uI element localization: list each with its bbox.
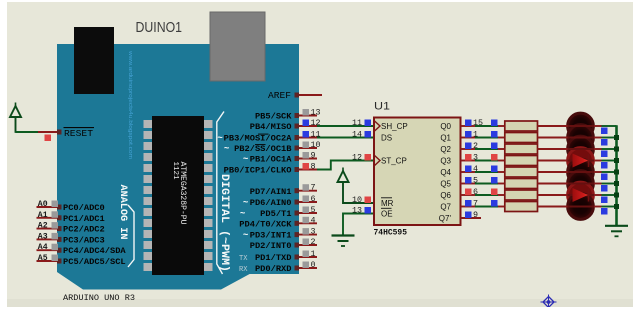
svg-text:1: 1	[311, 249, 316, 259]
svg-text:PB4/MISO: PB4/MISO	[250, 122, 292, 132]
LED D5	[568, 159, 594, 185]
svg-text:PB0/ICP1/CLKO: PB0/ICP1/CLKO	[224, 166, 292, 176]
clock wedges	[374, 121, 380, 132]
svg-text:PC3/ADC3: PC3/ADC3	[63, 235, 105, 245]
svg-text:~: ~	[224, 143, 229, 153]
LED D2	[568, 125, 594, 151]
pin A5 stub	[37, 260, 58, 262]
LED cathode square Q7	[601, 208, 608, 215]
rail junction dots	[614, 135, 619, 140]
svg-text:PD0/RXD: PD0/RXD	[255, 264, 292, 274]
wire power to MR	[343, 182, 374, 203]
svg-text:PB3/MOSI/OC2A: PB3/MOSI/OC2A	[224, 134, 293, 144]
svg-text:A4: A4	[38, 243, 48, 252]
wire LED to rail row Q2	[602, 148, 617, 150]
svg-text:Q3: Q3	[440, 156, 451, 165]
pin AREF stub	[299, 94, 322, 96]
pin A0 stub	[37, 206, 58, 208]
resistor R7	[505, 190, 538, 200]
LED D1	[568, 113, 594, 139]
svg-text:PB2/SS/OC1B: PB2/SS/OC1B	[234, 144, 292, 154]
wire Q7 to resistor	[461, 206, 476, 208]
svg-text:2: 2	[311, 237, 316, 247]
wire LED to rail row Q0	[602, 125, 617, 127]
svg-text:13: 13	[311, 108, 321, 118]
svg-text:Q2: Q2	[440, 145, 451, 154]
DIP chip pins	[144, 120, 153, 128]
svg-text:~: ~	[243, 154, 248, 164]
svg-text:ARDUINO UNO R3: ARDUINO UNO R3	[63, 293, 135, 303]
wire LED to rail row Q6	[602, 194, 617, 196]
svg-text:U1: U1	[374, 101, 390, 113]
svg-text:6: 6	[311, 194, 316, 204]
wire LED to rail row Q5	[602, 183, 617, 185]
LED D4	[568, 148, 594, 174]
LED D7 lit arrow	[573, 188, 589, 202]
pin 10 stub	[299, 147, 317, 149]
LED cathode square Q3	[601, 162, 608, 169]
svg-text:Q7: Q7	[440, 202, 451, 211]
svg-text:10: 10	[311, 140, 321, 150]
wire Q3 to resistor	[461, 160, 476, 162]
origin crosshair marker	[541, 295, 557, 308]
resistor R2	[505, 133, 538, 143]
svg-text:AREF: AREF	[268, 90, 291, 101]
svg-text:MR: MR	[381, 199, 394, 208]
wire pin8 to ST_CP	[317, 161, 374, 170]
white bracket digital header	[217, 112, 224, 275]
pin 1 stub	[299, 256, 317, 258]
svg-text:PB5/SCK: PB5/SCK	[255, 112, 292, 122]
svg-text:4: 4	[473, 164, 478, 174]
resistor R6	[505, 179, 538, 189]
wire Q5 to resistor	[461, 183, 476, 185]
barrel jack connector	[74, 27, 114, 94]
pin 8 stub	[299, 169, 317, 171]
svg-text:PD4/T0/XCK: PD4/T0/XCK	[239, 219, 292, 229]
pin 13 stub	[299, 115, 317, 117]
LED cathode square Q2	[601, 151, 608, 158]
resistor R4	[505, 156, 538, 166]
svg-text:13: 13	[352, 206, 362, 216]
wire Q6 to resistor	[461, 194, 476, 196]
margins	[0, 307, 639, 313]
wire LED to rail row Q4	[602, 171, 617, 173]
resistor R5	[505, 167, 538, 177]
LED cathode square Q0	[601, 128, 608, 135]
svg-text:~: ~	[218, 133, 223, 143]
wire reset	[16, 131, 39, 133]
ground rail	[615, 125, 618, 225]
LED cathode square Q4	[601, 174, 608, 181]
svg-text:12: 12	[352, 153, 362, 163]
wire OE to ground	[343, 214, 374, 236]
svg-text:OE: OE	[381, 209, 393, 218]
svg-text:1121: 1121	[171, 162, 179, 180]
svg-text:14: 14	[352, 130, 362, 140]
svg-text:PC4/ADC4/SDA: PC4/ADC4/SDA	[63, 246, 126, 256]
svg-text:PD3/INT1: PD3/INT1	[250, 231, 292, 241]
svg-text:PB1/OC1A: PB1/OC1A	[250, 155, 293, 165]
wire Q1 to resistor	[461, 137, 476, 139]
svg-text:~: ~	[243, 197, 248, 207]
LED cathode square Q6	[601, 197, 608, 204]
wire pin12 to SH_CP	[317, 125, 374, 127]
wire resistor to LED row Q5	[538, 183, 568, 185]
pin 2 stub	[299, 244, 317, 246]
power terminal at RESET	[15, 103, 17, 107]
pin A2 stub	[37, 228, 58, 230]
LED D3	[568, 136, 594, 162]
svg-text:DUINO1: DUINO1	[136, 19, 183, 36]
pin 11 stub	[299, 137, 317, 139]
svg-text:A3: A3	[38, 232, 48, 241]
svg-text:RESET: RESET	[64, 128, 93, 139]
svg-text:4: 4	[311, 215, 316, 225]
svg-text:PD6/AIN0: PD6/AIN0	[250, 198, 292, 208]
svg-text:~: ~	[240, 208, 245, 218]
svg-text:A1: A1	[38, 211, 48, 220]
svg-text:9: 9	[311, 151, 316, 161]
svg-text:PD1/TXD: PD1/TXD	[255, 253, 292, 263]
pin A4 stub	[37, 249, 58, 251]
svg-text:PD2/INT0: PD2/INT0	[250, 241, 292, 251]
LED cathode square Q5	[601, 185, 608, 192]
svg-text:PC1/ADC1: PC1/ADC1	[63, 214, 105, 224]
svg-text:ATMEGA328P-PU: ATMEGA328P-PU	[178, 162, 187, 225]
svg-text:DS: DS	[381, 133, 392, 142]
ground at OE	[332, 234, 355, 236]
svg-text:0: 0	[311, 260, 316, 270]
arduino board DUINO1 body	[57, 44, 299, 290]
svg-text:15: 15	[473, 118, 483, 128]
wire LED to rail row Q1	[602, 137, 617, 139]
wire resistor to LED row Q0	[538, 125, 568, 127]
svg-text:PC0/ADC0: PC0/ADC0	[63, 203, 105, 213]
pin 3 stub	[299, 234, 317, 236]
pin 0 stub	[299, 267, 317, 269]
svg-text:Q7': Q7'	[439, 214, 452, 223]
op chip U1 74HC595 body	[374, 118, 461, 226]
svg-text:RX: RX	[239, 266, 248, 274]
wire pin11 to DS	[317, 137, 374, 139]
wire resistor to LED row Q4	[538, 171, 568, 173]
MOSI overline	[258, 133, 269, 135]
ground at rail	[605, 225, 628, 227]
wire resistor to LED row Q3	[538, 160, 568, 162]
svg-text:3: 3	[473, 153, 478, 163]
svg-text:8: 8	[311, 162, 316, 172]
pin 6 stub	[299, 201, 317, 203]
svg-text:Q5: Q5	[440, 179, 451, 188]
svg-text:7: 7	[473, 199, 478, 209]
svg-text:ANALOG IN: ANALOG IN	[117, 185, 128, 240]
svg-text:A2: A2	[38, 222, 48, 231]
svg-text:6: 6	[473, 187, 478, 197]
svg-text:9: 9	[473, 210, 478, 220]
svg-text:11: 11	[352, 118, 362, 128]
svg-text:74HC595: 74HC595	[374, 229, 408, 238]
wire LED to rail row Q3	[602, 160, 617, 162]
svg-text:5: 5	[311, 205, 316, 215]
svg-text:Q1: Q1	[440, 133, 451, 142]
power terminal at MR	[342, 168, 344, 172]
svg-text:A0: A0	[38, 200, 48, 209]
svg-text:PC2/ADC2: PC2/ADC2	[63, 225, 105, 235]
svg-text:www.arduinoprojects4u.blogspot: www.arduinoprojects4u.blogspot.com	[127, 50, 133, 160]
wire Q4 to resistor	[461, 171, 476, 173]
svg-text:PC5/ADC5/SCL: PC5/ADC5/SCL	[63, 257, 126, 267]
LED D4 lit arrow	[573, 154, 589, 168]
svg-text:3: 3	[311, 227, 316, 237]
svg-text:~: ~	[243, 230, 248, 240]
svg-text:ST_CP: ST_CP	[381, 156, 407, 165]
USB connector	[210, 12, 265, 81]
resistor R3	[505, 144, 538, 154]
svg-text:Q6: Q6	[440, 191, 451, 200]
pin 12 stub	[299, 125, 317, 127]
svg-text:1: 1	[473, 130, 478, 140]
wire resistor to LED row Q2	[538, 148, 568, 150]
white bracket analog header	[128, 205, 134, 267]
svg-text:10: 10	[352, 195, 362, 205]
resistor R1	[505, 121, 538, 131]
svg-text:TX: TX	[239, 255, 248, 263]
svg-text:DIGITAL (~PWM): DIGITAL (~PWM)	[218, 174, 230, 272]
svg-text:PD7/AIN1: PD7/AIN1	[250, 187, 292, 197]
pin A3 stub	[37, 238, 58, 240]
LED D7	[568, 182, 594, 208]
svg-text:SH_CP: SH_CP	[381, 122, 408, 131]
pin 7 stub	[299, 190, 317, 192]
wire resistor to LED row Q1	[538, 137, 568, 139]
wire resistor to LED row Q7	[538, 206, 568, 208]
svg-text:5: 5	[473, 176, 478, 186]
wire Q2 to resistor	[461, 148, 476, 150]
reset state square	[45, 135, 52, 142]
svg-text:Q0: Q0	[440, 122, 451, 131]
resistor R8	[505, 202, 538, 212]
svg-text:A5: A5	[38, 254, 48, 263]
svg-text:PD5/T1: PD5/T1	[260, 209, 291, 219]
svg-text:Q4: Q4	[440, 168, 451, 177]
wire resistor to LED row Q6	[538, 194, 568, 196]
wire Q0 to resistor	[461, 125, 476, 127]
pin 4 stub	[299, 222, 317, 224]
pin 5 stub	[299, 212, 317, 214]
svg-text:2: 2	[473, 141, 478, 151]
board edge pads	[295, 113, 300, 118]
LED D6	[568, 171, 594, 197]
svg-text:7: 7	[311, 183, 316, 193]
wire LED to rail row Q7	[602, 206, 617, 208]
pin A1 stub	[37, 217, 58, 219]
LED cathode square Q1	[601, 139, 608, 146]
wire Q7' stub	[461, 217, 482, 219]
ATmega328 DIP chip body	[152, 116, 204, 275]
SS overline	[255, 144, 266, 146]
LED D8	[568, 194, 594, 220]
pin 9 stub	[299, 158, 317, 160]
